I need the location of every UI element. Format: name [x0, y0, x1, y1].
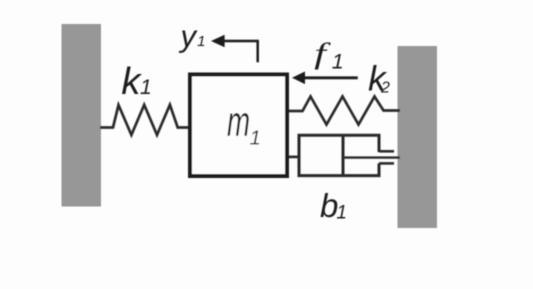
- mass m1 box: [190, 75, 287, 177]
- right wall: [398, 46, 438, 228]
- svg-text:1: 1: [140, 76, 152, 99]
- svg-text:y: y: [179, 19, 199, 54]
- damper b1 upper lip: [379, 150, 394, 153]
- spring k1: [100, 105, 189, 135]
- damper b1 cylinder: [299, 135, 379, 175]
- spring k2: [287, 97, 400, 125]
- damper b1 rod right: [343, 156, 400, 158]
- svg-text:1: 1: [197, 33, 205, 50]
- svg-text:1: 1: [332, 50, 344, 74]
- svg-text:m: m: [227, 98, 250, 145]
- svg-text:2: 2: [380, 79, 390, 96]
- svg-text:1: 1: [250, 127, 261, 149]
- damper b1 piston: [342, 135, 345, 175]
- damper b1 lower lip: [379, 162, 394, 165]
- svg-text:f: f: [314, 36, 331, 70]
- damper b1 rod left: [289, 156, 300, 159]
- f1 arrow: [304, 76, 358, 79]
- y1 arrow: [224, 41, 258, 62]
- left wall: [62, 24, 102, 207]
- svg-text:1: 1: [336, 203, 347, 224]
